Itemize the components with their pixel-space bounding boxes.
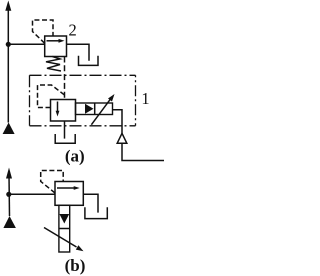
flow direction arrow up (a): [5, 1, 11, 11]
wire main supply line (a): [8, 43, 44, 45]
tank symbol (a top): [79, 56, 99, 66]
proportional solenoid box (a): [76, 103, 113, 115]
flow direction arrow up (b): [6, 168, 12, 179]
wire P-line vertical (b): [8, 175, 11, 216]
proportional relief valve body (b): [55, 182, 83, 206]
pilot line loop above valve 2 (dashed): [33, 20, 54, 43]
main valve body (square): [51, 100, 76, 122]
tank symbol (b): [85, 207, 107, 218]
svg-text:(a): (a): [65, 147, 85, 166]
wire to load: [122, 143, 164, 160]
pilot loop (b) (dashed): [41, 171, 64, 194]
valve 2 spring: [46, 57, 61, 72]
wire P-line vertical (a): [7, 8, 9, 123]
wire solenoid outlet to pilot port: [113, 110, 123, 134]
node junction dot (a): [6, 42, 11, 47]
tank symbol (a bottom): [55, 134, 75, 143]
svg-text:(b): (b): [65, 256, 86, 275]
valve (b) flow arrow: [57, 186, 80, 190]
wire main supply line (b): [9, 193, 55, 195]
valve 2 flow arrow: [47, 39, 65, 43]
node junction dot (b): [6, 192, 11, 197]
pump source triangle (b): [3, 216, 16, 228]
proportional solenoid box (b): [59, 205, 70, 252]
solenoid divider (b): [59, 228, 70, 230]
main valve flow arrow down: [56, 102, 60, 117]
svg-text:2: 2: [68, 21, 76, 40]
main valve pilot loop (dashed): [38, 85, 65, 108]
proportional adjust arrow (a): [91, 94, 114, 125]
wire valve 2 outlet to tank: [67, 44, 90, 60]
pump source triangle (a): [3, 123, 15, 135]
pilot/vent check triangle (open): [117, 133, 127, 143]
svg-text:1: 1: [141, 89, 149, 108]
solenoid triangle: [85, 104, 94, 114]
solenoid divider: [94, 103, 96, 115]
solenoid triangle (b): [59, 214, 69, 224]
enclosure boundary of valve 1 (dash-dot): [30, 75, 136, 126]
pilot connection valve2 to main valve (dashed): [64, 57, 66, 100]
wire valve (b) outlet to tank: [83, 194, 98, 212]
proportional adjust arrow (b): [44, 228, 84, 252]
wire main valve drain: [64, 121, 66, 139]
pilot relief valve 2 body: [45, 36, 67, 57]
